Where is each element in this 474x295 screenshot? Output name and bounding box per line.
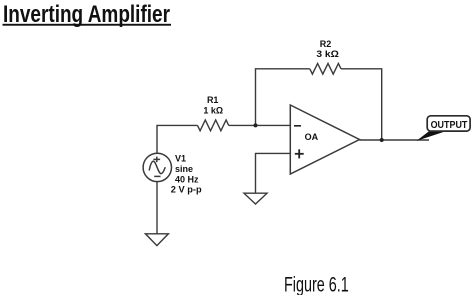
wire: non-inverting input to ground corner (256, 153, 291, 193)
source V1 (sine) (143, 153, 171, 181)
svg-text:1 kΩ: 1 kΩ (203, 105, 223, 115)
wire: V1 bottom to ground (156, 182, 158, 234)
OUTPUT flag box (427, 116, 470, 131)
wire: feedback top from left corner to R2 (256, 69, 310, 126)
svg-text:3 kΩ: 3 kΩ (316, 49, 339, 59)
minus marker inside op-amp (294, 125, 301, 127)
svg-text:OUTPUT: OUTPUT (431, 120, 468, 131)
wire: R1 to op-amp inverting input (229, 124, 291, 126)
junction node at output/feedback (380, 138, 384, 142)
title: Inverting Amplifier (3, 1, 172, 28)
ground under V1 (145, 234, 168, 246)
svg-text:R1: R1 (207, 95, 219, 105)
plus marker inside op-amp (295, 153, 304, 155)
svg-text:sine: sine (175, 164, 193, 174)
resistor R2 (310, 64, 341, 75)
svg-text:Figure 6.1: Figure 6.1 (284, 274, 349, 295)
OUTPUT flag tail (417, 131, 447, 141)
op-amp OA (290, 105, 359, 174)
svg-text:OA: OA (305, 132, 319, 142)
svg-text:40 Hz: 40 Hz (175, 174, 199, 184)
svg-text:Inverting Amplifier: Inverting Amplifier (3, 1, 170, 28)
wire: op-amp output (360, 139, 430, 141)
wire: V1 top to R1 (157, 125, 198, 153)
ground under non-inverting input (244, 193, 267, 204)
svg-text:2 V p-p: 2 V p-p (171, 184, 202, 194)
svg-text:V1: V1 (175, 154, 186, 164)
wire: feedback right down to output node (341, 69, 382, 140)
junction node at R1/feedback (254, 123, 258, 127)
svg-text:R2: R2 (320, 39, 332, 49)
resistor R1 (198, 120, 229, 131)
